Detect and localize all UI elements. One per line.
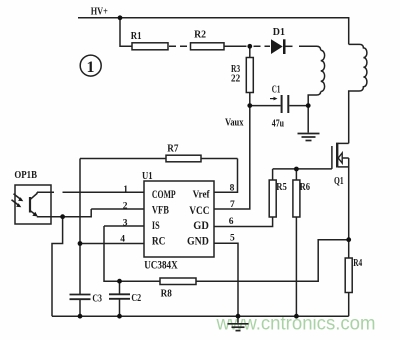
svg-text:OP1B: OP1B bbox=[14, 170, 37, 181]
svg-text:R5: R5 bbox=[276, 182, 287, 193]
svg-text:2: 2 bbox=[123, 202, 128, 212]
svg-text:C2: C2 bbox=[131, 293, 141, 304]
svg-text:RC: RC bbox=[152, 235, 166, 247]
svg-text:Vref: Vref bbox=[193, 188, 210, 200]
svg-text:R8: R8 bbox=[161, 289, 172, 300]
svg-text:Vaux: Vaux bbox=[225, 118, 244, 129]
svg-text:C1: C1 bbox=[272, 84, 281, 95]
svg-text:R4: R4 bbox=[353, 258, 362, 269]
svg-text:UC384X: UC384X bbox=[144, 259, 178, 271]
svg-text:6: 6 bbox=[229, 217, 234, 227]
svg-text:7: 7 bbox=[230, 200, 235, 210]
svg-text:R6: R6 bbox=[300, 182, 310, 193]
svg-text:1: 1 bbox=[87, 59, 95, 76]
svg-text:GND: GND bbox=[187, 235, 209, 247]
svg-text:D1: D1 bbox=[273, 27, 285, 38]
svg-text:Q1: Q1 bbox=[334, 176, 344, 187]
svg-text:U1: U1 bbox=[142, 171, 153, 182]
svg-text:5: 5 bbox=[230, 234, 235, 244]
svg-text:1: 1 bbox=[123, 185, 128, 195]
svg-text:8: 8 bbox=[230, 183, 235, 193]
svg-text:IS: IS bbox=[152, 220, 160, 232]
svg-text:47u: 47u bbox=[272, 119, 285, 130]
svg-text:3: 3 bbox=[123, 218, 128, 228]
svg-text:R2: R2 bbox=[194, 30, 206, 41]
svg-text:C3: C3 bbox=[92, 294, 102, 305]
svg-text:HV+: HV+ bbox=[91, 6, 108, 17]
svg-text:R1: R1 bbox=[131, 31, 142, 42]
svg-text:COMP: COMP bbox=[152, 189, 176, 201]
svg-text:VFB: VFB bbox=[152, 204, 169, 216]
svg-text:GD: GD bbox=[193, 220, 209, 232]
svg-text:R7: R7 bbox=[167, 143, 178, 154]
svg-text:4: 4 bbox=[120, 234, 125, 244]
svg-text:22: 22 bbox=[231, 73, 240, 84]
svg-text:VCC: VCC bbox=[189, 205, 209, 217]
